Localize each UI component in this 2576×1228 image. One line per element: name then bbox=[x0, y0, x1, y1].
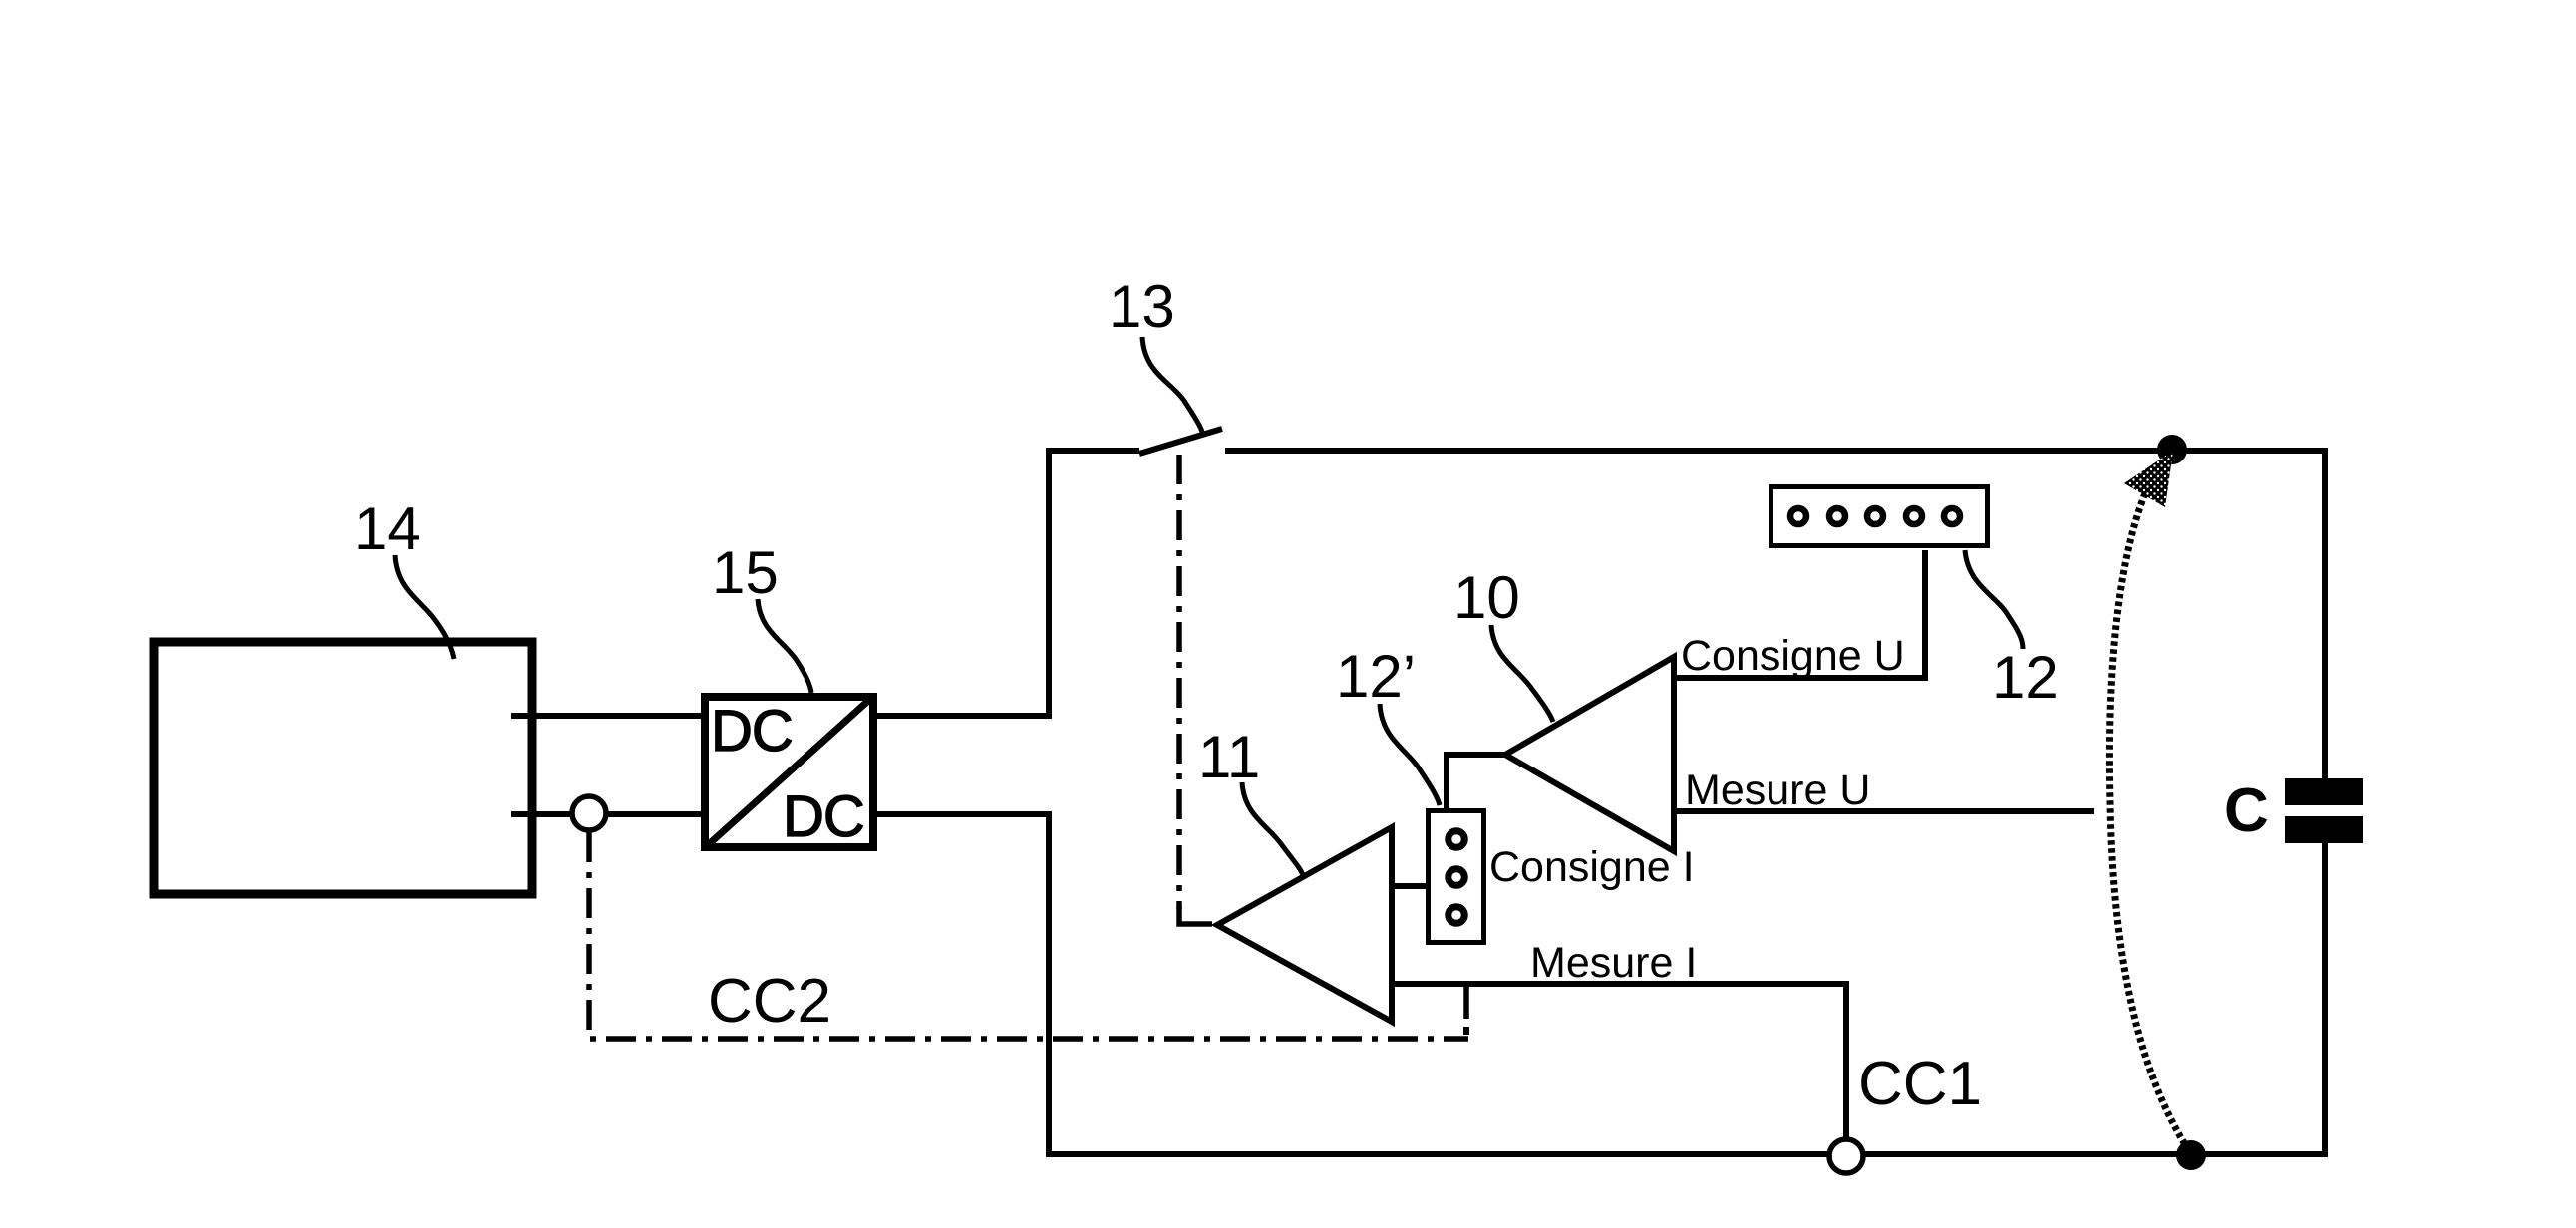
svg-text:CC2: CC2 bbox=[708, 967, 831, 1036]
wire DC/DC to top loop and switch bbox=[877, 451, 1139, 716]
svg-text:CC1: CC1 bbox=[1858, 1050, 1982, 1118]
svg-text:10: 10 bbox=[1453, 564, 1520, 631]
wire DC/DC to bottom loop bbox=[877, 814, 2325, 1154]
wire consigne U from amp 10 to connector 12 bbox=[1674, 550, 1925, 678]
svg-text:C: C bbox=[2224, 776, 2269, 845]
svg-text:13: 13 bbox=[1109, 273, 1175, 340]
elbow to amp 11 apex bbox=[1179, 907, 1212, 924]
wire from amp10 apex to connector 12' bbox=[1447, 755, 1505, 811]
wire amp 11 to connector 12' bbox=[1392, 883, 1430, 889]
switch 13 blade bbox=[1139, 429, 1222, 454]
dash-dot CC2 line from circle to below amp 11 bbox=[589, 832, 1468, 1039]
wire box14 to DC/DC top bbox=[511, 713, 701, 719]
svg-text:Consigne U: Consigne U bbox=[1681, 632, 1905, 680]
svg-text:Mesure U: Mesure U bbox=[1685, 767, 1870, 814]
node open circle on lower wire bbox=[572, 796, 606, 830]
svg-text:11: 11 bbox=[1198, 724, 1260, 790]
wire switch to top-right node bbox=[1225, 451, 2325, 778]
svg-text:Consigne I: Consigne I bbox=[1489, 843, 1695, 891]
svg-text:DC: DC bbox=[783, 784, 864, 849]
box 14 bbox=[154, 642, 532, 894]
op-amp U11 triangle bbox=[1217, 827, 1392, 1022]
leader to 10 bbox=[1491, 625, 1553, 722]
node open circle CC1 bbox=[1829, 1139, 1863, 1173]
svg-text:DC: DC bbox=[711, 699, 793, 764]
connector 12' (3 holes) bbox=[1429, 811, 1484, 943]
capacitor C bottom plate bbox=[2285, 816, 2363, 843]
arrowhead toward top node bbox=[2124, 451, 2173, 507]
svg-text:12’: 12’ bbox=[1336, 643, 1416, 710]
node bottom-right junction bbox=[2176, 1140, 2206, 1170]
leader to 12' bbox=[1380, 704, 1440, 805]
svg-text:14: 14 bbox=[354, 495, 421, 562]
measurement arc (stippled) bbox=[2109, 493, 2186, 1146]
svg-text:12: 12 bbox=[1992, 644, 2059, 711]
CC2 right stub from mesure I wire bbox=[1463, 984, 1469, 1019]
capacitor C top plate bbox=[2285, 778, 2363, 805]
wire mesure U from amp 10 toward capacitor bbox=[1674, 808, 2094, 814]
leader to 13 bbox=[1142, 337, 1202, 432]
wire box14 to DC/DC bottom bbox=[511, 811, 701, 817]
leader to 11 bbox=[1242, 782, 1303, 875]
op-amp U10 triangle bbox=[1505, 657, 1674, 851]
stub dot bbox=[1463, 1027, 1469, 1035]
leader to 14 bbox=[395, 555, 454, 659]
node top-right junction bbox=[2157, 435, 2187, 464]
dash-dot control line from switch down to amp 11 bbox=[1176, 455, 1182, 909]
leader to 15 bbox=[758, 599, 811, 693]
leader to 12 bbox=[1965, 550, 2023, 649]
svg-text:Mesure I: Mesure I bbox=[1530, 939, 1697, 987]
connector 12 (5 holes) bbox=[1771, 487, 1988, 546]
converter U15 DC/DC box bbox=[705, 697, 873, 849]
svg-text:15: 15 bbox=[712, 539, 779, 606]
wire mesure I from amp 11 to CC1 bbox=[1392, 984, 1846, 1141]
